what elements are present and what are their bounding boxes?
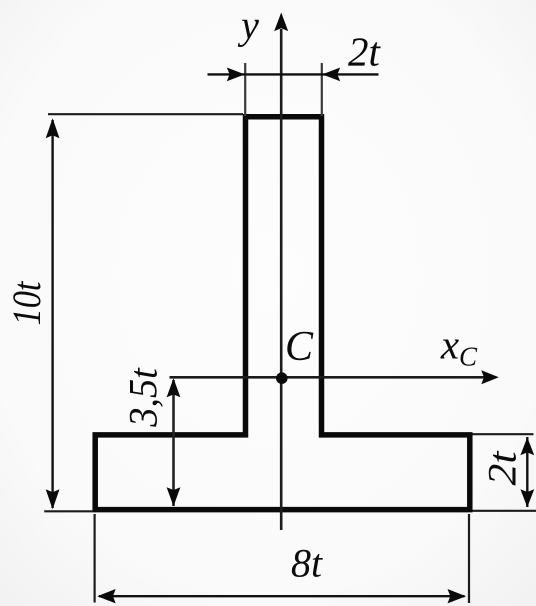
dim 10t left: up arrow [46,118,60,138]
dim 8t bottom: dimension line [99,595,465,597]
xC axis [170,370,499,384]
dim 2t top: right arrow [322,68,340,82]
dim 8t bottom: left arrow [97,589,116,603]
dim 2t top: extension line left [244,63,246,116]
svg-text:8t: 8t [291,541,323,586]
dim 10t left: dimension line [51,120,53,508]
svg-text:x: x [440,322,459,368]
dim 3,5t: label [121,367,166,427]
dim 2t right: label [480,451,525,486]
centroid C dot [276,372,288,384]
svg-text:3,5t: 3,5t [121,367,166,427]
svg-text:2t: 2t [480,451,525,486]
dim 8t bottom: right arrow [448,589,467,603]
dim 8t bottom: extension line right [468,514,470,603]
dim 2t right: extension line top [473,433,534,435]
dim 2t right: down arrow [520,489,534,507]
dim 2t right: extension line bottom [473,510,536,512]
dim 3,5t: down arrow [167,487,181,506]
T-section outline [95,117,470,510]
svg-text:10t: 10t [4,281,49,326]
y axis [274,13,288,531]
svg-text:y: y [237,3,259,48]
dim 2t top: dimension line [208,73,379,75]
svg-text:2t: 2t [348,29,382,75]
dim 10t left: label [4,281,49,326]
dim 2t right: dimension line [526,437,528,507]
dim 2t right: up arrow [520,437,534,455]
svg-text:C: C [285,324,314,370]
dim 10t left: down arrow [46,489,60,509]
dim 8t bottom: extension line left [93,514,95,603]
svg-text:C: C [459,342,478,372]
dim 10t left: extension line top [48,113,243,115]
dim 2t top: extension line right [321,63,323,116]
dim 2t top: left arrow [227,68,245,82]
dim 3,5t: dimension line [172,380,175,506]
dim 3,5t: up arrow [167,378,181,397]
dim 10t left: extension line bottom [44,510,93,512]
